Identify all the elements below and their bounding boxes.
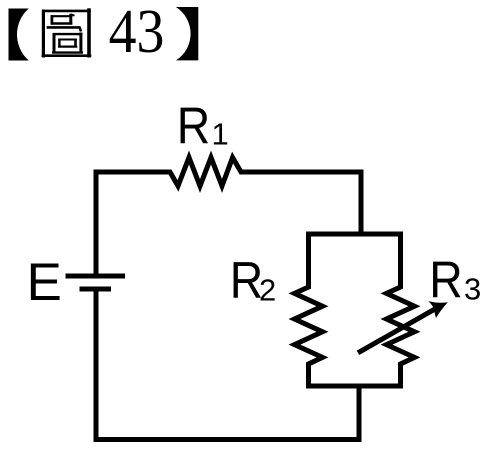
battery E: long plate [66, 274, 126, 279]
title glyph 圖 [42, 8, 92, 57]
parallel box top [309, 232, 401, 237]
wire: bottom feed + bottom wire + left lower branch [96, 289, 359, 440]
resistor R2 branch (left, zigzag) [295, 234, 323, 386]
label R3 [429, 252, 481, 309]
wire: left branch + top wire + resistor R1 zigzag + right feed [96, 158, 361, 277]
svg-text:R: R [177, 98, 210, 155]
R3 variable-resistor arrow shaft [358, 308, 437, 353]
svg-text:R: R [429, 252, 462, 309]
svg-text:E: E [27, 253, 62, 312]
svg-text:3: 3 [464, 272, 481, 307]
svg-text:1: 1 [212, 117, 229, 152]
title bracket right 】 [176, 7, 198, 60]
title bracket left 【 [9, 9, 29, 61]
R3 arrowhead [428, 301, 447, 318]
battery E: short plate [80, 287, 112, 292]
label R2 [230, 253, 277, 310]
parallel box bottom [309, 384, 401, 389]
resistor R3 branch (right, zigzag) [387, 234, 415, 386]
label R1 [177, 98, 229, 155]
svg-text:43: 43 [109, 0, 165, 66]
svg-text:2: 2 [259, 273, 276, 308]
